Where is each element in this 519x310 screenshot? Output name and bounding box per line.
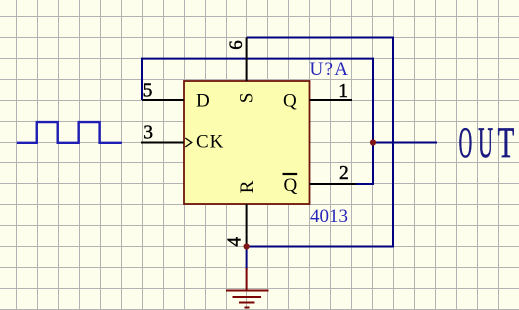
wire: vertical drop into pin 5 (D) [141, 58, 143, 100]
wire: feedback horizontal from D column to Q-bar column [142, 58, 373, 60]
wire: top horizontal from S pin to right loop [247, 37, 393, 39]
svg-text:1: 1 [338, 81, 348, 102]
svg-text:U?A: U?A [310, 59, 350, 80]
svg-text:U: U [478, 120, 493, 167]
svg-text:CK: CK [196, 132, 224, 153]
svg-text:3: 3 [143, 123, 153, 144]
svg-text:D: D [196, 90, 210, 111]
svg-text:R: R [237, 180, 258, 193]
wire: pin 2 stub extension to vertical [355, 183, 374, 185]
pin 2 (Q-bar) stub [310, 183, 357, 185]
svg-text:O: O [459, 119, 473, 167]
svg-text:6: 6 [226, 40, 247, 50]
svg-text:Q: Q [284, 175, 298, 196]
wire: short vertical from ground junction down [246, 247, 248, 271]
wire: bottom horizontal to R/ground junction [247, 246, 394, 248]
junction: R pin / ground [244, 243, 250, 249]
pin 1 (Q) stub [310, 99, 353, 101]
ground [226, 268, 269, 308]
pin 5 (D) stub [142, 99, 184, 101]
pin 3 (CK) stub [141, 142, 184, 144]
svg-text:S: S [237, 93, 258, 104]
clock input waveform [17, 122, 122, 143]
flip-flop U?A body [184, 81, 310, 204]
svg-text:4: 4 [225, 237, 246, 247]
wire: vertical from feedback down through OUT junction to pin 2 [372, 58, 374, 184]
wire: OUT net horizontal [373, 142, 437, 144]
net label OUT [459, 119, 515, 168]
clock input wedge on CK pin [185, 138, 191, 147]
svg-text:Q: Q [283, 90, 297, 111]
junction: Q-bar feedback to OUT [370, 139, 376, 145]
svg-text:4013: 4013 [310, 206, 348, 227]
svg-text:2: 2 [339, 163, 349, 184]
svg-text:T: T [498, 119, 515, 167]
wire: right loop vertical [392, 37, 394, 247]
svg-text:5: 5 [143, 81, 153, 102]
pin 6 (S) stub [246, 38, 248, 82]
pin 4 (R) stub [246, 204, 248, 247]
